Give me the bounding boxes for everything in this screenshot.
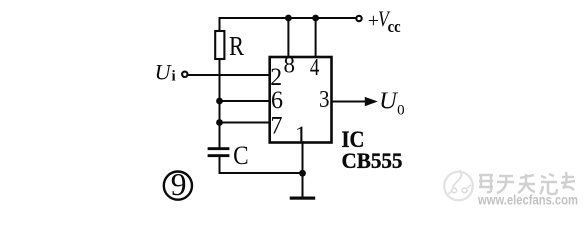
junction dot top rail pin 4 — [312, 15, 319, 22]
junction dot pin 7 tap — [216, 119, 223, 126]
svg-text:i: i — [172, 68, 176, 84]
wire pin 2 input — [188, 74, 269, 76]
svg-text:6: 6 — [271, 87, 283, 114]
terminal +Vcc — [356, 16, 361, 21]
svg-text:1: 1 — [295, 122, 308, 149]
wire top supply rail — [220, 18, 356, 31]
svg-text:R: R — [229, 31, 244, 61]
junction dot pin 6 tap — [216, 98, 223, 105]
figure number 9 (circled) — [164, 172, 192, 200]
wire pin 3 output — [332, 101, 368, 103]
svg-text:7: 7 — [271, 113, 283, 140]
junction dot bottom rail pin 1 — [299, 170, 306, 177]
svg-text:www.elecfans.com: www.elecfans.com — [477, 193, 578, 208]
svg-text:0: 0 — [397, 103, 405, 119]
svg-text:U: U — [155, 60, 173, 85]
wire pin 7 — [220, 122, 269, 124]
svg-text:CB555: CB555 — [342, 148, 403, 173]
wire capacitor to bottom rail — [220, 157, 303, 174]
svg-text:4: 4 — [310, 55, 320, 81]
capacitor C plate bottom — [208, 154, 230, 157]
IC U1 CB555 body — [270, 57, 332, 143]
junction dot top rail pin 8 — [285, 15, 292, 22]
svg-text:8: 8 — [284, 53, 296, 78]
watermark logo circle — [444, 170, 473, 200]
capacitor C plate top — [208, 147, 230, 150]
terminal Ui — [182, 72, 187, 77]
wire left vertical (R to C) — [219, 58, 221, 148]
svg-text:C: C — [233, 140, 249, 170]
svg-text:cc: cc — [388, 17, 401, 36]
svg-text:9: 9 — [171, 167, 187, 202]
svg-text:U: U — [379, 88, 399, 115]
wire pin 8 drop — [287, 18, 289, 57]
wire pin 6 — [220, 100, 269, 102]
resistor R — [215, 31, 224, 59]
watermark text dianzifashaoyou — [479, 172, 575, 194]
arrow output pin 3 — [365, 97, 378, 106]
svg-text:3: 3 — [319, 86, 330, 113]
wire pin 1 drop — [302, 143, 304, 197]
wire pin 4 drop — [315, 18, 317, 57]
ground — [290, 197, 316, 200]
